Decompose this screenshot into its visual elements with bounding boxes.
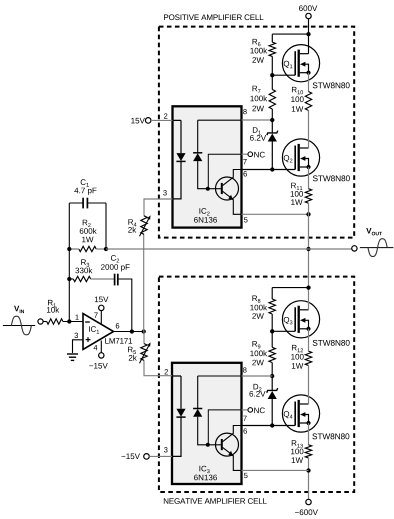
label STW8N80 (Q2)	[313, 175, 350, 181]
label R13 value	[291, 440, 303, 463]
label LM7171	[105, 338, 132, 344]
resistor R4 (trimmer)	[140, 215, 151, 236]
pin 4 label	[94, 345, 98, 350]
junction output/R4R5	[142, 329, 146, 333]
transistor Q2 body circle	[282, 139, 319, 176]
label STW8N80 (Q3)	[313, 340, 350, 346]
IC3 phototransistor	[208, 426, 242, 471]
junction rail/neg cell	[306, 285, 310, 289]
wire IC3 pin5 to rail	[242, 469, 309, 471]
label R6 value	[250, 39, 267, 63]
IC2 photodiode	[193, 120, 241, 189]
resistor R11	[305, 189, 311, 204]
label R3 value	[75, 259, 92, 273]
wire rail Q3 source to R12	[308, 329, 310, 351]
IC3 base junction	[206, 443, 210, 447]
zener diode D2	[267, 376, 278, 426]
label R10 value	[291, 87, 303, 112]
node VOUT terminal	[352, 246, 357, 251]
wire top rail to R6	[272, 33, 308, 35]
junction 600V	[306, 32, 310, 36]
input sine source	[3, 316, 35, 335]
pin 3 label	[74, 333, 78, 338]
wire 15V to IC2 pin2	[151, 119, 173, 121]
wire rail Q4 source to R13	[308, 423, 310, 445]
wire R4 branch	[144, 199, 173, 332]
ground	[67, 354, 78, 360]
-15V terminal (op-amp V-)	[89, 353, 107, 369]
label POSITIVE AMPLIFIER CELL	[164, 14, 263, 20]
wire -15V to IC3 pin3	[149, 455, 172, 457]
wire Q3 gate	[272, 330, 295, 332]
600V terminal	[299, 5, 317, 18]
pin 1 label	[75, 315, 78, 320]
label D2 value	[249, 384, 265, 397]
IC2 pin 7 label	[243, 159, 246, 164]
junction R2 left	[67, 247, 71, 251]
junction pin5 neg/rail	[306, 468, 310, 472]
resistor R10	[305, 92, 311, 111]
IC3 pin 2 label	[165, 369, 168, 374]
label Q1	[284, 61, 293, 68]
label R4 value	[128, 219, 136, 232]
junction D2 anode	[270, 423, 274, 427]
wire R5 branch	[144, 332, 172, 376]
wire IC2 pin8 to R7/D1 junction	[242, 119, 273, 121]
label C2 value	[101, 255, 130, 271]
label R8 value	[250, 295, 267, 318]
resistor R2	[69, 246, 106, 251]
label R7 value	[250, 86, 267, 112]
wire rail Q1 source to R10	[308, 73, 310, 92]
junction R3 left	[67, 277, 71, 281]
transistor Q4 body circle	[282, 395, 319, 432]
label Q4	[284, 411, 293, 418]
15V terminal (IC2 pin 2)	[131, 118, 151, 124]
wire 600V to rail	[308, 19, 310, 54]
IC2 pin7 internal wire	[208, 154, 241, 189]
IC2 base junction	[206, 187, 210, 191]
IC3 pin7 internal wire	[208, 410, 241, 445]
node VIN label	[14, 306, 24, 313]
resistor R1	[47, 319, 63, 324]
junction R7/pin8/D1	[270, 118, 274, 122]
label IC2	[199, 208, 209, 215]
label NEGATIVE AMPLIFIER CELL	[164, 498, 267, 504]
node VOUT label	[366, 228, 382, 235]
IC2 pin 6 label	[243, 171, 246, 176]
label STW8N80 (Q4)	[312, 433, 349, 439]
label 6N136 (IC3)	[194, 475, 217, 481]
wire IC3 pin6 to Q4 gate	[242, 425, 296, 427]
-15V terminal (IC3 pin 3)	[121, 453, 149, 459]
wire IC2 pin6 to Q2 gate	[242, 169, 296, 171]
-600V terminal	[295, 499, 318, 515]
wire pin3 to ground	[73, 340, 84, 353]
wire Q1 gate	[272, 74, 295, 76]
wire R12 to Q4 drain	[308, 365, 310, 404]
label 6N136 (IC2)	[194, 217, 217, 223]
output sine symbol	[360, 239, 394, 257]
label Q3	[284, 317, 293, 324]
IC3 pin 5 label	[244, 473, 248, 478]
label IC3	[199, 466, 209, 473]
junction pin5/rail	[306, 212, 310, 216]
wire neg top rail to R8	[272, 287, 308, 289]
optocoupler IC2 box	[173, 106, 242, 227]
wire R11 to output node	[308, 203, 310, 310]
junction R2 right / feedback node	[104, 247, 108, 251]
IC3 LED	[172, 376, 186, 456]
transistor Q3 body circle	[282, 301, 319, 338]
IC3 pin 7 label	[243, 416, 246, 421]
transistor Q1 internals	[295, 50, 310, 77]
resistor R13	[305, 445, 311, 458]
resistor R9	[269, 331, 275, 376]
resistor R6	[269, 34, 275, 75]
resistor R3	[69, 276, 114, 281]
wire rail Q2 source to R11	[308, 167, 310, 189]
op-amp plus input sign	[86, 337, 91, 342]
junction rail/VOUT	[306, 247, 310, 251]
15V terminal (op-amp V+)	[95, 297, 109, 311]
positive amplifier cell dashed box	[159, 27, 354, 238]
label C1 value	[74, 179, 96, 195]
transistor Q4 internals	[295, 400, 310, 427]
resistor R8	[269, 288, 275, 332]
IC3 pin 3 label	[164, 447, 168, 452]
resistor R7	[269, 75, 275, 120]
label R1 value	[47, 300, 59, 313]
label STW8N80 (Q1)	[313, 82, 350, 88]
IC3 pin 6 label	[243, 428, 246, 433]
resistor R5 (trimmer)	[140, 342, 151, 363]
IC3 photodiode	[193, 376, 241, 445]
label R2 value	[80, 220, 97, 243]
op-amp minus input sign	[85, 321, 90, 323]
wire op-amp output	[114, 331, 144, 333]
junction D1 anode	[270, 167, 274, 171]
capacitor C1	[69, 198, 106, 209]
wire IC3 pin8 to R9/D2 junction	[242, 375, 273, 377]
label IC1	[89, 326, 99, 333]
transistor Q1 body circle	[282, 45, 319, 82]
IC2 LED	[173, 120, 186, 198]
pin 6 label	[116, 323, 119, 328]
wire left bus	[68, 203, 70, 322]
junction output/C2	[130, 329, 134, 333]
negative amplifier cell dashed box	[159, 277, 354, 492]
input terminal	[38, 319, 43, 324]
wire C1 right drop	[105, 203, 107, 249]
IC3 pin 8 label	[243, 367, 247, 372]
IC2 NC pin 7	[242, 152, 265, 158]
pin 7 label	[94, 313, 97, 318]
IC2 pin 8 label	[243, 109, 247, 114]
wire R13 to -600V	[308, 458, 310, 499]
wire pin4 supply	[100, 341, 102, 353]
wire R1 to node A	[63, 321, 83, 323]
label R12 value	[291, 345, 303, 369]
IC2 pin 5 label	[244, 217, 248, 222]
resistor R12	[305, 351, 311, 365]
label R11 value	[291, 183, 303, 205]
node A junction (inverting input)	[67, 319, 71, 323]
zener diode D1	[267, 120, 278, 170]
label D1 value	[250, 127, 266, 140]
wire input to R1	[43, 321, 47, 323]
capacitor C2	[115, 274, 132, 332]
label Q2	[284, 155, 293, 162]
transistor Q2 internals	[295, 144, 310, 171]
wire pin7 supply	[100, 311, 102, 324]
wire R10 to Q2 drain	[308, 111, 310, 149]
op-amp IC1 triangle	[83, 314, 114, 350]
label R9 value	[250, 341, 267, 365]
wire IC2 pin5 to rail	[242, 213, 309, 215]
IC3 NC pin 7	[242, 408, 265, 414]
wire VOUT feedback line	[106, 248, 352, 250]
label R5 value	[128, 347, 137, 361]
junction R6/R7/gate	[270, 73, 274, 77]
IC2 phototransistor	[208, 170, 242, 215]
junction R9/pin8/D2	[270, 374, 274, 378]
transistor Q3 internals	[295, 306, 310, 333]
junction R8/R9/gate	[270, 329, 274, 333]
optocoupler IC3 box	[172, 363, 242, 484]
IC2 pin 2 label	[164, 113, 167, 118]
IC2 pin 3 label	[163, 190, 167, 195]
